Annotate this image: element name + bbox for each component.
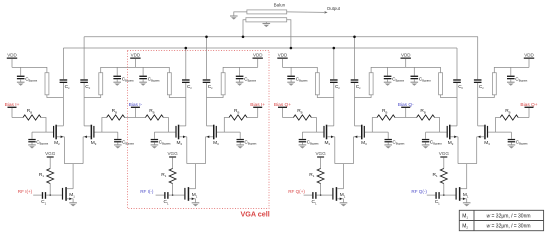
ground M1 cell1 <box>69 203 77 207</box>
wire balun secondary left to bus1 <box>243 20 246 37</box>
svg-text:R1: R1 <box>433 172 438 178</box>
node Bias I+ (bias input 3) <box>250 102 265 118</box>
node Bias Q+ (bias input 4) <box>274 102 291 118</box>
capacitor Cbypass M3-gate cell2 <box>237 132 258 145</box>
svg-text:CBypass: CBypass <box>122 139 135 145</box>
wire cascode source join cell4 <box>458 164 477 189</box>
capacitor Cbypass top-left cell3 <box>287 67 308 82</box>
svg-text:RB: RB <box>27 108 32 114</box>
wire VDD rail right cell4 <box>494 67 529 72</box>
svg-text:R1: R1 <box>161 172 166 178</box>
wire M3 source down cell1 <box>82 137 84 164</box>
node Bias I+ (bias input 1) <box>5 102 20 118</box>
svg-text:M1: M1 <box>463 192 469 198</box>
svg-text:RB: RB <box>420 108 425 114</box>
resistor R1 cell2 <box>161 169 176 184</box>
node RF Q(+) (RF input cell3) <box>288 189 305 194</box>
svg-text:M2: M2 <box>54 140 60 146</box>
label Output <box>327 6 341 11</box>
ground Cbypass M2-gate cell1 <box>28 145 36 149</box>
svg-text:RB: RB <box>149 108 154 114</box>
svg-text:Cc: Cc <box>187 84 192 90</box>
svg-text:M2: M2 <box>325 140 331 146</box>
svg-text:CBypass: CBypass <box>244 76 257 82</box>
capacitor C1 cell4 <box>435 192 440 205</box>
svg-text:VDD: VDD <box>401 53 411 58</box>
resistor RB left cell4 <box>417 108 435 120</box>
wire M1 drain up cell2 <box>195 188 197 190</box>
capacitor Cbypass top-left cell1 <box>17 67 38 82</box>
capacitor C1 cell1 <box>41 192 46 205</box>
wire Cc2 to M3 drain cell4 <box>477 83 479 126</box>
wire R1 to gate node cell2 <box>172 184 174 197</box>
output arrowhead <box>324 11 327 14</box>
svg-text:RF Q(-): RF Q(-) <box>411 189 427 194</box>
svg-text:M2: M2 <box>448 140 454 146</box>
balun primary winding <box>247 10 287 14</box>
wire balun primary left to ground <box>234 12 247 16</box>
capacitor Cbypass top-right cell2 <box>236 67 257 82</box>
svg-text:CBypass: CBypass <box>515 76 528 82</box>
power VDD rail 1 <box>7 53 18 68</box>
ground Cbypass top-right cell2 <box>236 82 244 86</box>
power VDD rail 2 <box>130 53 141 68</box>
junction Cc2 cell3 on bus1 <box>353 36 356 39</box>
svg-text:M3: M3 <box>213 140 219 146</box>
ground Cbypass top-left cell1 <box>17 82 25 86</box>
wire bias-right cell3 <box>395 117 406 119</box>
capacitor Cbypass top-left cell2 <box>139 67 160 82</box>
resistor R1 cell4 <box>433 169 448 184</box>
ground Cbypass M3-gate cell1 <box>114 145 122 149</box>
svg-text:CBypass: CBypass <box>307 139 320 145</box>
svg-text:M3: M3 <box>91 140 97 146</box>
svg-text:VGG: VGG <box>315 151 326 156</box>
svg-text:CBypass: CBypass <box>296 76 309 82</box>
resistor load right cell2 <box>221 73 225 95</box>
wire M2 source down cell4 <box>457 137 459 164</box>
wire Cc1 to M2 drain cell4 <box>456 83 458 126</box>
ground Cbypass M3-gate cell2 <box>236 145 244 149</box>
resistor R1 cell3 <box>309 169 324 184</box>
svg-text:C1: C1 <box>312 199 317 205</box>
transistor M3 cell4 <box>477 125 491 146</box>
junction balun-bus2 <box>290 47 293 50</box>
svg-text:Cc: Cc <box>458 84 463 90</box>
ground Cbypass M2-gate cell3 <box>299 145 307 149</box>
transistor M2 cell2 <box>175 125 186 146</box>
wire Cc1 to M2 drain cell2 <box>185 83 187 126</box>
legend row M1 <box>462 214 530 220</box>
wire load-left bottom to drain cell3 <box>317 95 334 98</box>
svg-text:Cc: Cc <box>356 84 361 90</box>
svg-text:w = 32μm, l = 30nm: w = 32μm, l = 30nm <box>486 224 530 230</box>
wire Cc2 to M3 drain cell1 <box>83 83 85 126</box>
svg-text:VDD: VDD <box>524 53 534 58</box>
wire RB-left to M2 gate cell2 <box>154 118 175 133</box>
wire load-left bottom to drain cell2 <box>169 95 186 98</box>
wire VDD rail left cell3 <box>283 67 318 72</box>
svg-text:RB: RB <box>234 108 239 114</box>
junction balun-bus1 <box>242 36 245 39</box>
transistor M3 cell1 <box>83 125 97 146</box>
wire Cc2 to M3 drain cell2 <box>206 83 208 126</box>
wire output bus 2 (lower summing line) <box>63 47 457 49</box>
wire R1 to gate node cell4 <box>443 184 445 197</box>
transistor M2 cell4 <box>447 125 458 146</box>
capacitor Cbypass top-right cell1 <box>113 67 134 82</box>
svg-text:CBypass: CBypass <box>148 76 161 82</box>
svg-text:RB: RB <box>505 108 510 114</box>
wire VDD rail right cell3 <box>371 67 406 72</box>
wire R1 to gate node cell3 <box>320 184 322 197</box>
svg-text:RF I(+): RF I(+) <box>18 189 33 194</box>
legend row M2 <box>462 224 530 230</box>
svg-text:M1: M1 <box>192 192 198 198</box>
svg-text:M1: M1 <box>340 192 346 198</box>
wire bias-right cell1 <box>125 117 136 119</box>
wire M3 source down cell4 <box>476 137 478 164</box>
wire R1 to gate node cell1 <box>49 184 51 197</box>
resistor load right cell4 <box>492 73 496 95</box>
power VDD rail 5 <box>401 53 412 68</box>
svg-text:CBypass: CBypass <box>516 139 529 145</box>
svg-text:RB: RB <box>112 108 117 114</box>
resistor load left cell2 <box>167 73 171 95</box>
junction Cc2 cell2 on bus1 <box>205 36 208 39</box>
wire M2 source down cell3 <box>334 137 336 164</box>
svg-text:RB: RB <box>382 108 387 114</box>
legend table frame <box>459 210 543 230</box>
resistor RB left cell3 <box>293 108 311 120</box>
wire VDD rail left cell1 <box>12 67 47 72</box>
svg-text:CBypass: CBypass <box>244 139 257 145</box>
wire M3 source down cell2 <box>205 137 207 164</box>
wire VDD rail left cell4 <box>406 67 441 72</box>
wire M1 source to ground cell1 <box>72 199 74 203</box>
wire balun center tap <box>265 22 267 24</box>
svg-text:Output: Output <box>327 6 341 11</box>
ground M1 cell3 <box>340 203 348 207</box>
node Bias Q+ (bias input 6) <box>520 102 537 118</box>
wire load-right bottom to drain cell2 <box>207 95 224 98</box>
wire RB-right to M3 gate cell4 <box>488 118 511 133</box>
transistor M1 cell4 <box>456 187 469 201</box>
label VGA cell <box>241 209 270 218</box>
transistor M3 cell2 <box>206 125 220 146</box>
resistor load left cell4 <box>439 73 443 95</box>
capacitor Cc2 cell1 <box>80 37 90 90</box>
wire Cc2 to M3 drain cell3 <box>354 83 356 126</box>
wire C1 to M1 gate cell3 <box>317 194 333 196</box>
wire RB-left to M2 gate cell3 <box>302 118 323 133</box>
power VGG cell2 <box>167 151 178 168</box>
resistor R1 cell1 <box>39 169 54 184</box>
label Balun <box>274 3 286 8</box>
wire RF input cell4 <box>427 194 436 196</box>
ground Cbypass M2-gate cell2 <box>151 145 159 149</box>
transistor M3 cell3 <box>354 125 368 146</box>
junction Cc1 cell3 on bus2 <box>333 47 336 50</box>
capacitor Cbypass M2-gate cell3 <box>299 132 320 145</box>
wire C1 to M1 gate cell4 <box>440 194 456 196</box>
capacitor C1 cell3 <box>312 192 317 205</box>
node Bias Q- (bias input 5) <box>398 102 414 118</box>
wire bias-right cell4 <box>518 117 529 119</box>
node Bias I- (bias input 2) <box>129 102 143 118</box>
capacitor Cc1 cell2 <box>182 48 192 90</box>
wire M1 drain up cell1 <box>72 188 74 190</box>
power VGG cell4 <box>439 151 450 168</box>
capacitor Cbypass M3-gate cell3 <box>385 132 406 145</box>
junction Cc1 cell2 on bus2 <box>185 47 188 50</box>
capacitor Cbypass top-right cell3 <box>384 67 405 82</box>
resistor load left cell1 <box>45 73 49 95</box>
svg-text:VGG: VGG <box>167 151 178 156</box>
svg-text:M3: M3 <box>361 140 367 146</box>
capacitor C1 cell2 <box>164 192 169 205</box>
svg-text:C1: C1 <box>164 199 169 205</box>
wire C1 to M1 gate cell2 <box>169 194 185 196</box>
capacitor Cc2 cell3 <box>351 37 361 90</box>
ground Cbypass top-right cell4 <box>507 82 515 86</box>
wire bias-right cell2 <box>247 117 258 119</box>
wire cascode source join cell3 <box>335 164 354 189</box>
svg-text:C1: C1 <box>435 199 440 205</box>
wire VDD rail left cell2 <box>135 67 169 72</box>
ground Cbypass M3-gate cell4 <box>508 145 516 149</box>
transistor M2 cell1 <box>53 125 64 146</box>
resistor RB left cell2 <box>145 108 163 120</box>
capacitor Cbypass top-right cell4 <box>507 67 528 82</box>
power VDD rail 3 <box>253 53 264 68</box>
wire C1 to M1 gate cell1 <box>46 194 62 196</box>
capacitor Cbypass M2-gate cell4 <box>422 132 443 145</box>
svg-text:R1: R1 <box>39 172 44 178</box>
wire output <box>287 11 327 14</box>
wire load-left bottom to drain cell4 <box>441 95 458 98</box>
ground Cbypass M3-gate cell3 <box>384 145 392 149</box>
capacitor Cbypass M3-gate cell4 <box>508 132 529 145</box>
wire M1 drain up cell3 <box>343 188 345 190</box>
capacitor Cbypass M2-gate cell1 <box>28 132 49 145</box>
wire VDD rail right cell2 <box>223 67 258 72</box>
transistor M1 cell3 <box>332 187 345 201</box>
balun secondary winding <box>246 18 287 22</box>
ground balun center tap <box>263 24 271 28</box>
resistor RB right cell4 <box>500 108 518 120</box>
svg-text:M3: M3 <box>484 140 490 146</box>
wire M1 source to ground cell4 <box>466 199 468 203</box>
wire bias-left cell2 <box>135 117 145 119</box>
wire RB-left to M2 gate cell1 <box>32 118 53 133</box>
wire RB-left to M2 gate cell4 <box>426 118 447 133</box>
wire cascode source join cell1 <box>64 164 83 189</box>
power VGG cell3 <box>315 151 326 168</box>
svg-text:VDD: VDD <box>278 53 288 58</box>
power VDD rail 4 <box>277 53 288 68</box>
svg-text:Cc: Cc <box>208 84 213 90</box>
wire balun secondary right to bus2 <box>287 20 291 48</box>
capacitor Cbypass M3-gate cell1 <box>114 132 135 145</box>
wire RB-right to M3 gate cell2 <box>217 118 240 133</box>
svg-text:VDD: VDD <box>131 53 141 58</box>
capacitor Cc2 cell2 <box>203 37 213 90</box>
wire M2 source down cell1 <box>63 137 65 164</box>
svg-text:CBypass: CBypass <box>392 76 405 82</box>
capacitor Cc1 cell4 <box>453 48 463 90</box>
wire cascode source join cell2 <box>187 164 206 189</box>
wire load-left bottom to drain cell1 <box>47 95 64 98</box>
svg-text:M1: M1 <box>69 192 75 198</box>
wire M2 source down cell2 <box>186 137 188 164</box>
power VDD rail 6 <box>524 53 535 68</box>
transistor M2 cell3 <box>323 125 334 146</box>
wire load-right bottom to drain cell1 <box>84 95 101 98</box>
transistor M1 cell1 <box>62 187 75 201</box>
wire VDD rail right cell1 <box>101 67 136 72</box>
wire RB-right to M3 gate cell3 <box>365 118 388 133</box>
ground balun primary <box>230 16 238 20</box>
wire Cc1 to M2 drain cell3 <box>333 83 335 126</box>
wire bias-left cell3 <box>283 117 294 119</box>
capacitor Cc1 cell3 <box>330 48 340 90</box>
svg-text:VDD: VDD <box>7 53 17 58</box>
wire load-right bottom to drain cell3 <box>355 95 372 98</box>
ground Cbypass M2-gate cell4 <box>422 145 430 149</box>
resistor RB right cell1 <box>107 108 125 120</box>
wire output bus 1 (top summing line) <box>84 36 478 38</box>
capacitor Cbypass M2-gate cell2 <box>151 132 172 145</box>
wire M1 drain up cell4 <box>466 188 468 190</box>
svg-text:CBypass: CBypass <box>419 76 432 82</box>
ground Cbypass top-left cell2 <box>139 82 147 86</box>
resistor RB left cell1 <box>23 108 41 120</box>
wire load-right bottom to drain cell4 <box>478 95 495 98</box>
svg-text:VGG: VGG <box>45 151 56 156</box>
wire M3 source down cell3 <box>353 137 355 164</box>
svg-text:w = 32μm, l = 30nm: w = 32μm, l = 30nm <box>486 214 530 220</box>
svg-text:CBypass: CBypass <box>36 139 49 145</box>
wire M1 source to ground cell3 <box>343 199 345 203</box>
wire Cc1 to M2 drain cell1 <box>62 83 64 126</box>
svg-text:CBypass: CBypass <box>159 139 172 145</box>
ground Cbypass top-left cell4 <box>411 82 419 86</box>
svg-text:R1: R1 <box>309 172 314 178</box>
svg-text:VDD: VDD <box>253 53 263 58</box>
svg-text:M2: M2 <box>177 140 183 146</box>
svg-text:VGG: VGG <box>439 151 450 156</box>
resistor load right cell3 <box>369 73 373 95</box>
svg-text:CBypass: CBypass <box>122 76 135 82</box>
wire bias-left cell4 <box>406 117 417 119</box>
svg-text:CBypass: CBypass <box>430 139 443 145</box>
svg-text:RF Q(+): RF Q(+) <box>288 189 305 194</box>
node RF I(-) (RF input cell2) <box>140 189 154 194</box>
svg-text:RF I(-): RF I(-) <box>140 189 154 194</box>
svg-text:VGA cell: VGA cell <box>241 209 270 218</box>
capacitor Cc1 cell1 <box>60 48 70 90</box>
wire RF input cell2 <box>156 194 165 196</box>
VGA cell boundary box <box>127 50 269 208</box>
svg-text:CBypass: CBypass <box>25 76 38 82</box>
resistor load left cell3 <box>315 73 319 95</box>
wire RB-right to M3 gate cell1 <box>95 118 118 133</box>
wire RF input cell1 <box>33 194 42 196</box>
wire M1 source to ground cell2 <box>195 199 197 203</box>
resistor RB right cell2 <box>229 108 247 120</box>
capacitor Cc2 cell4 <box>474 37 484 90</box>
transistor M1 cell2 <box>184 187 197 201</box>
svg-text:Cc: Cc <box>479 84 484 90</box>
svg-text:Cc: Cc <box>85 84 90 90</box>
svg-text:RB: RB <box>297 108 302 114</box>
ground Cbypass top-right cell1 <box>113 82 121 86</box>
ground Cbypass top-left cell3 <box>287 82 295 86</box>
node RF Q(-) (RF input cell4) <box>411 189 427 194</box>
ground Cbypass top-right cell3 <box>384 82 392 86</box>
svg-text:Cc: Cc <box>335 84 340 90</box>
ground M1 cell4 <box>463 203 471 207</box>
capacitor Cbypass top-left cell4 <box>411 67 432 82</box>
resistor RB right cell3 <box>377 108 395 120</box>
wire RF input cell3 <box>304 194 313 196</box>
wire bias-left cell1 <box>12 117 23 119</box>
svg-text:C1: C1 <box>41 199 46 205</box>
node RF I(+) (RF input cell1) <box>18 189 33 194</box>
svg-text:Balun: Balun <box>274 3 286 8</box>
ground M1 cell2 <box>192 203 200 207</box>
resistor load right cell1 <box>99 73 103 95</box>
svg-text:Cc: Cc <box>65 84 70 90</box>
power VGG cell1 <box>45 151 56 168</box>
svg-text:CBypass: CBypass <box>392 139 405 145</box>
